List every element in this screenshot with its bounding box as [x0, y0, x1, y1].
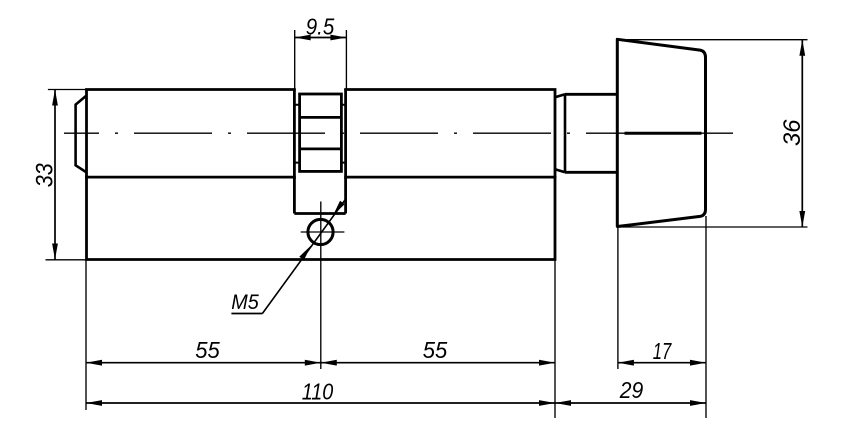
svg-text:M5: M5: [231, 291, 259, 314]
barrel bottom line: [87, 176, 556, 179]
dimension 55 right line: [321, 362, 555, 364]
svg-text:55: 55: [195, 337, 220, 363]
thumb-turn knob outline: [617, 39, 705, 226]
knob left extension line: [617, 227, 619, 370]
cam section outer edges: [294, 90, 345, 214]
hole center vertical / extension line: [320, 202, 322, 370]
cam divider lines: [300, 117, 342, 148]
svg-text:55: 55: [423, 337, 448, 363]
cylinder body outline: [87, 90, 556, 260]
svg-text:9.5: 9.5: [306, 14, 335, 40]
dimension 9.5 arrows: [295, 35, 311, 41]
cam side ticks: [294, 105, 345, 163]
svg-text:29: 29: [619, 377, 644, 403]
dimension 9.5 line: [295, 37, 347, 39]
svg-text:33: 33: [31, 163, 58, 188]
dimension 36 extension lines: [617, 40, 807, 227]
M5 leader arrow at cam bottom edge: [331, 201, 345, 217]
M5 leader line: [262, 199, 346, 314]
knob right extension line: [705, 216, 707, 418]
knob mid edge line: [625, 132, 702, 135]
stem top and bottom: [565, 94, 617, 172]
dimension 36 line: [801, 40, 803, 227]
M5 leader arrow at circle lower-left: [299, 244, 313, 260]
stem chamfer: [555, 94, 565, 172]
svg-text:110: 110: [302, 379, 334, 405]
dimension 110 line: [86, 402, 555, 404]
dimension 17 line: [618, 362, 706, 364]
dimension 33 extension lines: [46, 90, 87, 260]
dimension 9.5 extension lines: [295, 30, 347, 89]
M5 screw hole circle: [308, 219, 333, 244]
svg-text:17: 17: [653, 338, 672, 364]
left body extension line: [85, 260, 87, 411]
M5 label underline: [231, 313, 262, 315]
left end cap bevel: [76, 96, 87, 173]
svg-text:36: 36: [779, 119, 806, 146]
dimension 55 left line: [86, 362, 321, 364]
dimension 36 arrows: [799, 40, 805, 56]
body end extension line: [554, 260, 556, 419]
hole crosshair horizontal: [301, 231, 345, 233]
centerline (dash-dot): [64, 132, 733, 134]
dimension 33 arrows: [52, 90, 58, 106]
cam stack inner rectangle: [300, 94, 342, 171]
dimension 29 line: [555, 402, 706, 404]
dimension 33 line: [54, 90, 56, 260]
